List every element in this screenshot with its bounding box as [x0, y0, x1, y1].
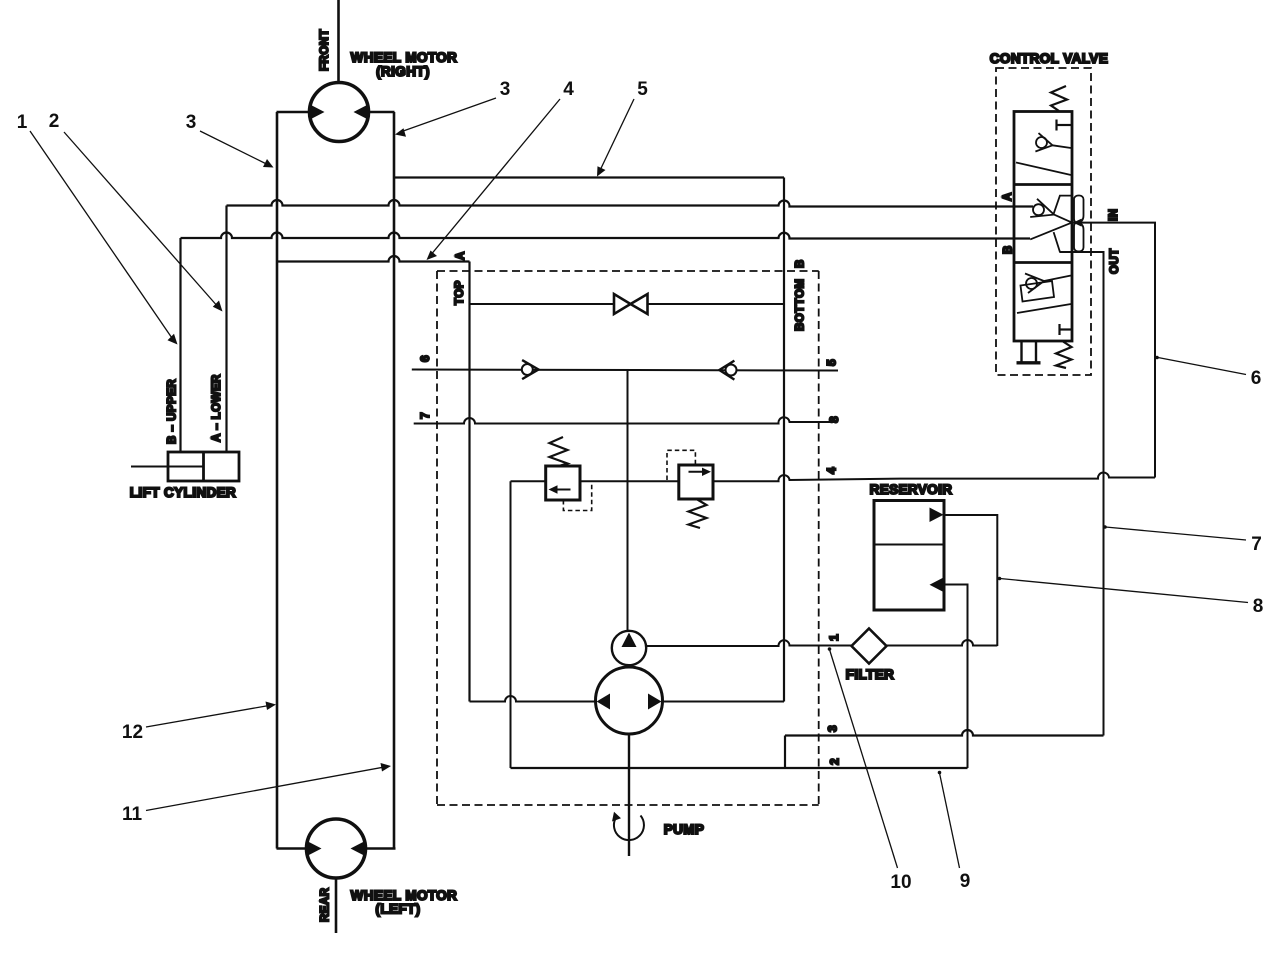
dashed box top [437, 270, 819, 272]
svg-text:12: 12 [122, 722, 143, 743]
top section check circle [1036, 137, 1047, 148]
svg-text:2: 2 [49, 111, 60, 132]
dashed box right [818, 271, 820, 805]
svg-text:7: 7 [418, 412, 432, 419]
inlet arrow top [930, 508, 944, 523]
bottom line to right [1044, 276, 1071, 282]
svg-text:1: 1 [827, 634, 841, 641]
svg-text:6: 6 [418, 355, 432, 362]
internal arrow [689, 471, 708, 473]
mid line apex to crossing [1054, 215, 1072, 223]
wire from top port [944, 515, 997, 646]
wire A-LOWER [225, 206, 227, 453]
main pump left arrow [597, 694, 610, 710]
svg-text:OUT: OUT [1109, 248, 1121, 274]
wire B-UPPER [179, 238, 181, 452]
pilot dashed right [667, 450, 695, 480]
bottom diagonal [1017, 304, 1071, 313]
rail from bus5 down to pump right [783, 178, 785, 702]
mid check seat lines [1030, 199, 1054, 217]
top section diagonal [1016, 163, 1071, 176]
T drain bottom [1058, 324, 1060, 335]
charge pump circle [612, 631, 646, 665]
control valve dashed envelope [996, 68, 1091, 375]
relief valve left box [546, 466, 580, 500]
svg-text:(LEFT): (LEFT) [375, 902, 420, 917]
wire 4 from relief right to IN drop [713, 473, 1155, 482]
lift cylinder body [168, 452, 239, 481]
svg-text:3: 3 [186, 112, 197, 133]
divider mid/bottom [1014, 261, 1072, 264]
svg-text:FRONT: FRONT [319, 29, 331, 71]
wire motor left left stub [277, 847, 309, 850]
wire from bottom port [944, 585, 968, 769]
arrowhead left inward [307, 841, 322, 857]
main pump circle [596, 667, 663, 734]
spring [550, 437, 568, 466]
wire motor left right stub [364, 847, 396, 850]
dashed box left [436, 271, 438, 805]
svg-text:PUMP: PUMP [664, 822, 705, 837]
left rail [276, 112, 279, 849]
mid lower passage [1054, 232, 1072, 252]
top spring [1051, 86, 1067, 111]
bowtie right triangle [631, 294, 648, 314]
wire from charge pump to reservoir drop [646, 640, 997, 646]
svg-text:CONTROL VALVE: CONTROL VALVE [990, 51, 1108, 66]
bottom tilted box [1021, 281, 1055, 302]
outlet arrow bottom [930, 578, 944, 593]
right rail [393, 112, 396, 849]
svg-text:(RIGHT): (RIGHT) [376, 64, 430, 79]
svg-text:LIFT CYLINDER: LIFT CYLINDER [130, 485, 236, 500]
right lobe upper [1074, 196, 1084, 223]
svg-text:B: B [1003, 245, 1015, 254]
svg-text:9: 9 [960, 871, 971, 892]
check valve right seat [719, 361, 734, 380]
svg-text:8: 8 [1253, 596, 1264, 617]
bus to valve port A [227, 200, 1034, 207]
arrowhead left inward [310, 104, 325, 120]
svg-text:11: 11 [122, 804, 143, 825]
svg-text:RESERVOIR: RESERVOIR [870, 482, 953, 497]
svg-text:BOTTOM: BOTTOM [795, 278, 807, 331]
drop wire down to bottom bus [510, 481, 512, 768]
port B diagonal to crossing [1030, 223, 1072, 240]
svg-text:10: 10 [890, 872, 911, 893]
svg-text:1: 1 [17, 112, 28, 133]
svg-text:B – UPPER: B – UPPER [167, 379, 179, 444]
svg-text:4: 4 [563, 79, 574, 100]
piston [202, 452, 205, 481]
svg-text:A: A [455, 251, 467, 260]
svg-text:TOP: TOP [454, 280, 466, 305]
wire 6-5 [412, 370, 838, 371]
wire 3 [785, 730, 1104, 735]
svg-text:A: A [1002, 192, 1014, 201]
pilot dashed left [563, 482, 591, 511]
center vertical from wire 6-5 to charge pump [627, 370, 629, 632]
reservoir box [874, 501, 944, 611]
svg-text:IN: IN [1108, 209, 1120, 222]
svg-text:6: 6 [1251, 368, 1262, 389]
wire A corner down [468, 262, 470, 702]
wire motor right right stub [367, 111, 395, 114]
mid upper passage [1054, 196, 1072, 214]
check valve right circle [726, 365, 737, 376]
svg-text:3: 3 [826, 725, 840, 732]
OUT wire [1060, 252, 1104, 736]
dashed box bottom [437, 804, 819, 806]
wire 2 [511, 767, 968, 769]
bottom spring [1056, 342, 1072, 369]
step between wire2 and wire3 [784, 736, 786, 769]
check valve left seat [522, 360, 538, 379]
IN arrowhead at crossing [1073, 219, 1082, 227]
valve body [1014, 112, 1072, 342]
svg-text:3: 3 [500, 79, 511, 100]
wheel motor left circle [307, 819, 366, 878]
rotation arrow arc [614, 816, 644, 841]
wire into left side [511, 480, 546, 482]
wire A into dashed box [277, 256, 470, 262]
svg-text:2: 2 [828, 758, 842, 765]
svg-text:REAR: REAR [320, 887, 332, 922]
bowtie left triangle [614, 294, 631, 314]
T drain top [1055, 120, 1057, 131]
internal arrow [552, 489, 571, 491]
top section check seat [1035, 133, 1052, 151]
arrowhead right inward [354, 104, 369, 120]
check valve left circle [522, 364, 533, 375]
svg-text:5: 5 [637, 79, 648, 100]
divider top/mid [1014, 183, 1072, 186]
spring below [689, 499, 707, 528]
wheel motor left shaft [335, 878, 338, 933]
svg-text:A – LOWER: A – LOWER [211, 374, 223, 442]
mid check circle [1033, 204, 1044, 215]
relief valve right box [679, 465, 713, 499]
bus to valve port B [181, 233, 1031, 239]
pump shaft down [628, 734, 630, 856]
svg-text:WHEEL MOTOR: WHEEL MOTOR [351, 50, 458, 65]
svg-text:4: 4 [825, 467, 839, 474]
arrowhead right inward [351, 841, 366, 857]
right lobe lower [1074, 223, 1084, 252]
svg-text:7: 7 [1251, 534, 1262, 555]
pump left wire [470, 696, 596, 702]
bottom check circle [1026, 278, 1037, 289]
wire 7-8 [414, 417, 834, 423]
charge pump arrow up [622, 633, 637, 648]
wire left of bowtie [470, 303, 615, 305]
IN wire [1072, 223, 1155, 478]
svg-text:8: 8 [827, 416, 841, 423]
main pump right arrow [648, 694, 662, 710]
wire between relief valves [580, 480, 679, 482]
svg-text:FILTER: FILTER [846, 667, 895, 682]
top section line to right [1053, 145, 1072, 148]
wire motor right left stub [277, 111, 312, 114]
wire right of bowtie [648, 303, 785, 305]
wheel motor right circle [310, 83, 369, 142]
piston rod [131, 466, 204, 468]
wheel motor right shaft [337, 0, 340, 83]
filter diamond [852, 629, 887, 664]
svg-text:5: 5 [825, 359, 839, 366]
bottom check seat [1025, 274, 1044, 294]
svg-text:B: B [795, 259, 807, 268]
reservoir divider [874, 544, 944, 546]
actuator box [1020, 341, 1022, 362]
bus 5 (top) [394, 176, 784, 178]
pump right wire [663, 701, 784, 703]
